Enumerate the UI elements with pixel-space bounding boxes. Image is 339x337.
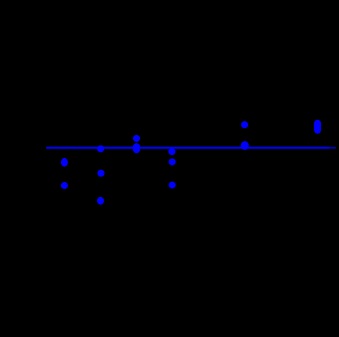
point P14: [314, 120, 321, 130]
point P10: [169, 158, 176, 165]
point P6: [133, 135, 140, 142]
point P13: [241, 141, 249, 150]
point P8: [133, 146, 140, 153]
point P12: [241, 121, 248, 128]
point P4: [97, 170, 104, 177]
x-axis arrow tail: [329, 147, 336, 149]
point P1: [61, 158, 68, 167]
point P15: [314, 124, 321, 134]
point P5: [97, 197, 104, 205]
point P9: [168, 148, 175, 155]
point P3: [97, 145, 104, 152]
point P7: [133, 143, 140, 150]
x-axis line: [46, 147, 329, 149]
point P11: [169, 181, 176, 188]
point P2: [61, 182, 68, 189]
